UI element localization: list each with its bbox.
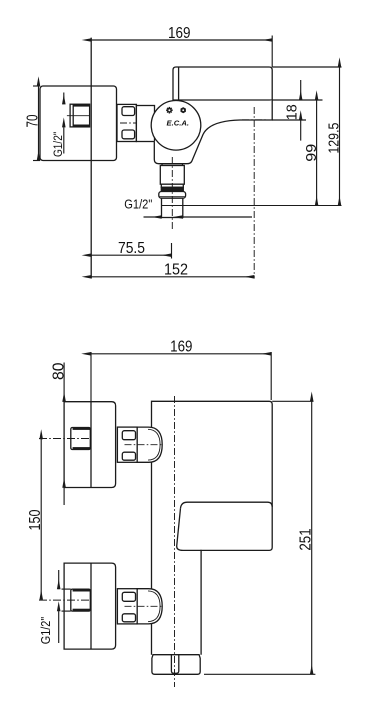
aerator centerline (dash-dot, x=254): [253, 107, 255, 279]
outlet ring: [161, 184, 183, 187]
aerator nozzle: [171, 655, 178, 674]
svg-text:251: 251: [297, 528, 314, 550]
body top extension line (to 251 dim): [272, 400, 313, 402]
body outline (front view): [152, 401, 273, 654]
bottom eccentric stub: [71, 589, 91, 611]
top flange inner line: [90, 402, 92, 488]
hot symbol (gear): [166, 107, 173, 114]
dimension 70 (plate height): [33, 86, 40, 161]
outlet step: [162, 164, 183, 166]
svg-text:18: 18: [283, 104, 300, 120]
svg-text:G1/2": G1/2": [124, 198, 152, 212]
dimension 169 (side view, top): [91, 36, 272, 68]
outlet bulge ring: [159, 192, 186, 199]
dimension 18 (right side): [272, 80, 322, 141]
dimension 75.5 (bottom): [91, 243, 171, 259]
svg-text:70: 70: [25, 114, 42, 127]
top eccentric stub: [71, 428, 91, 450]
valve body circle (side view): [151, 101, 201, 151]
outlet underside center tick: [242, 119, 266, 121]
bottom connection nut (front view): [117, 589, 137, 624]
extension line at nipple thread (99 / 129.5 reference): [162, 205, 342, 207]
dimension 251 (right): [204, 401, 315, 674]
cold symbol (hex dot): [181, 107, 186, 113]
connector piece (side view): [136, 106, 154, 142]
wall line: [90, 38, 92, 279]
bottom connection centerline: [125, 605, 163, 607]
top connection nut (front view): [117, 427, 137, 462]
svg-text:169: 169: [168, 25, 191, 42]
dimension 99 (right side): [316, 100, 318, 206]
bottom flange inner line: [90, 563, 92, 649]
svg-text:152: 152: [164, 261, 188, 278]
spout arm / lower body outline (side view): [154, 100, 272, 164]
bottom stub centerline (150 dim reference): [39, 599, 91, 601]
svg-text:G1/2": G1/2": [38, 616, 53, 644]
handle lever (side view): [173, 67, 272, 100]
svg-text:80: 80: [50, 362, 67, 380]
dimension 152 (bottom): [91, 276, 254, 278]
top connection dome: [137, 427, 162, 462]
G1/2 dimension (bottom stub): [59, 570, 71, 643]
G1/2 socket in plate (threaded, side view): [67, 104, 90, 127]
dimension 150 (left, between stub centers): [40, 439, 42, 600]
svg-text:150: 150: [27, 509, 44, 530]
outlet nut: [160, 166, 184, 185]
svg-text:G1/2": G1/2": [53, 132, 65, 158]
svg-text:E.C.A.: E.C.A.: [167, 120, 190, 127]
spout end cap (front view): [152, 655, 200, 675]
svg-text:99: 99: [303, 144, 320, 162]
top wall flange (front view): [64, 402, 116, 488]
top stub centerline (150 dim reference): [39, 438, 91, 440]
hose nipple cylinder: [162, 198, 183, 217]
top connection centerline: [125, 444, 163, 446]
outlet centerline: [171, 157, 173, 231]
dimension 169 (front view): [91, 352, 271, 402]
dimension 80 (left): [63, 363, 65, 506]
dimension 129.5 (right side): [339, 67, 341, 206]
handle paddle face lines (front view): [181, 502, 273, 508]
svg-text:129.5: 129.5: [325, 123, 342, 154]
connection nut (side view): [117, 104, 136, 141]
bottom connection dome: [137, 589, 162, 624]
bottom wall flange (front view): [64, 563, 116, 649]
wall plate (escutcheon, side view): [40, 86, 117, 161]
G1/2 label (side view, wall socket): [63, 93, 65, 154]
body centerline (front view): [174, 396, 176, 687]
svg-text:75.5: 75.5: [118, 240, 145, 257]
outlet dark band: [161, 187, 183, 191]
svg-text:169: 169: [170, 339, 192, 356]
